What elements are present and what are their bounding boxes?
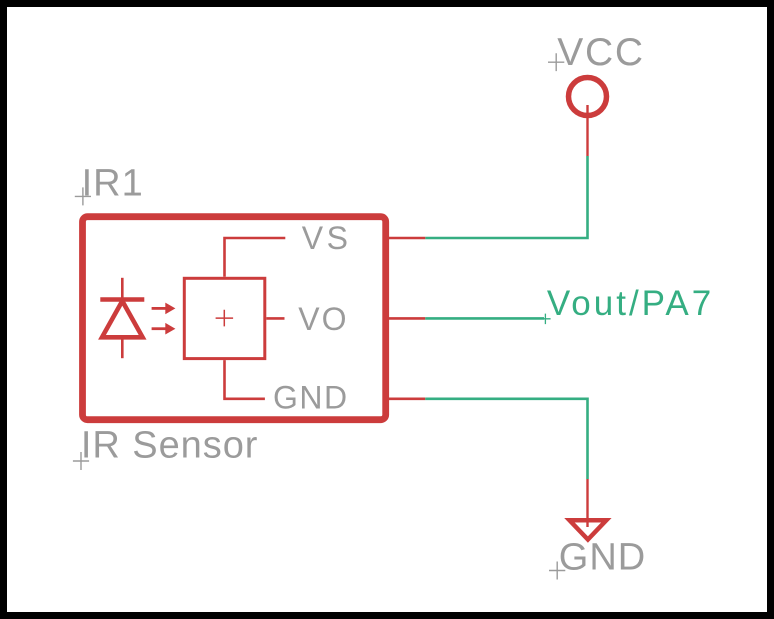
IR arrow 1 xyxy=(152,303,176,315)
svg-text:Vout/PA7: Vout/PA7 xyxy=(547,284,714,323)
wire VCC to VS xyxy=(425,156,587,238)
photodiode D1 anode lead xyxy=(121,338,124,359)
IC body IR1 sensor box xyxy=(83,217,386,420)
label IR Sensor xyxy=(73,425,259,471)
wire GND net xyxy=(425,399,587,479)
svg-text:VCC: VCC xyxy=(557,31,644,74)
photodiode D1 cathode bar xyxy=(100,297,144,302)
svg-text:VS: VS xyxy=(302,220,352,256)
label VCC xyxy=(548,31,645,74)
svg-text:GND: GND xyxy=(559,537,646,579)
pin stub VS xyxy=(389,237,426,240)
photodiode D1 cathode lead xyxy=(121,278,124,298)
pin VCC xyxy=(586,105,588,156)
label GND (net) xyxy=(549,537,646,580)
pin GND supply xyxy=(586,479,588,527)
photodiode D1 triangle xyxy=(102,301,143,337)
internal pin VO xyxy=(266,317,284,320)
pin stub VO xyxy=(389,317,426,320)
supply symbol VCC xyxy=(569,78,607,116)
pin stub GND xyxy=(389,397,426,400)
internal pin VS xyxy=(225,238,286,277)
node Vout/PA7 xyxy=(540,284,714,324)
ground symbol xyxy=(570,520,607,539)
crosshair center mark xyxy=(216,310,234,327)
svg-text:IR Sensor: IR Sensor xyxy=(81,425,259,467)
wire VO net Vout/PA7 xyxy=(425,317,544,320)
svg-text:IR1: IR1 xyxy=(82,163,144,205)
internal pin GND xyxy=(225,360,265,399)
svg-text:VO: VO xyxy=(298,301,348,337)
detector square U-internal xyxy=(184,278,264,358)
svg-text:GND: GND xyxy=(273,380,349,416)
IR arrow 2 xyxy=(152,323,176,335)
label IR1 xyxy=(75,163,144,206)
